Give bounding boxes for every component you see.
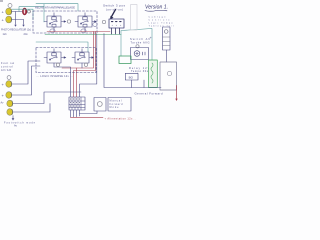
wire green strip to bus — [143, 80, 145, 88]
wire jack2 right — [12, 19, 24, 21]
relay K2 bottom pin — [84, 27, 86, 32]
green strip writing — [151, 63, 153, 83]
pump box U2 — [131, 48, 149, 60]
connector block CN1 — [69, 97, 85, 110]
wire jack3 to logic box — [12, 61, 40, 84]
wire jack6 joins — [13, 104, 50, 113]
ground arrow 1 — [14, 25, 16, 27]
motor box circle — [167, 71, 171, 75]
power wire red drop A — [62, 32, 94, 69]
green label strip (tall) — [149, 60, 158, 88]
svg-text:Cablage: Cablage — [149, 17, 167, 19]
wire red supply legend — [71, 116, 104, 118]
svg-text:Footswitch mode: Footswitch mode — [4, 121, 36, 124]
circled junction label — [67, 20, 70, 23]
wire drop to ground 2 — [23, 20, 25, 25]
title underline — [145, 9, 167, 12]
jack J6 — [7, 109, 13, 116]
svg-text:24v: 24v — [24, 32, 29, 36]
relay module BC box — [125, 73, 138, 80]
wire jack1 to lamp — [12, 11, 22, 13]
circled note under K2 — [81, 29, 86, 33]
svg-text:General Forward: General Forward — [135, 92, 163, 96]
switch S1 legs — [112, 28, 120, 34]
svg-text:Torche AVG: Torche AVG — [131, 40, 150, 44]
wire teal drop to motor block — [120, 35, 122, 57]
jack J2 shadow — [10, 17, 13, 22]
power wire red top — [47, 31, 110, 33]
wire teal riser to box top — [36, 4, 78, 22]
lamp highlight — [24, 9, 25, 14]
circled label left of switch — [102, 20, 105, 23]
relay K1 coil — [52, 17, 56, 20]
relay K1 body — [47, 16, 61, 27]
wire teal mid bus — [36, 42, 88, 52]
wire green bus — [45, 34, 121, 36]
relay K1 output arrow — [62, 21, 65, 23]
jack J1 — [6, 8, 12, 15]
relay K3 contacts — [50, 57, 56, 60]
jack J2 — [6, 16, 12, 23]
relay K3 left pin — [44, 57, 47, 59]
svg-text:(on-off-on): (on-off-on) — [106, 8, 123, 12]
relay K1 top pin — [53, 13, 55, 16]
pump small marks — [143, 52, 146, 55]
relay K4 output arrow — [90, 57, 93, 59]
relay K4 left pin — [72, 57, 75, 59]
connector grid rows — [69, 101, 85, 108]
svg-text:RELAIS ATV ANTIPARALLELAGE: RELAIS ATV ANTIPARALLELAGE — [35, 6, 75, 10]
relay K2 top pin — [84, 13, 86, 16]
manual mode box — [108, 98, 131, 112]
relay K4 top pin — [81, 49, 83, 52]
power wire red branch A down — [76, 68, 78, 97]
wire BC box to bus — [131, 80, 133, 88]
relay K4 coil — [80, 53, 84, 56]
faint spare component outline — [131, 5, 137, 31]
mode indicator box — [94, 98, 106, 112]
relay K1 contacts — [50, 21, 56, 24]
ground arrow 2 — [22, 25, 24, 27]
circled note right of K2 — [93, 23, 97, 27]
wire dark drop to bundle — [80, 34, 97, 98]
relay K2 contacts — [81, 21, 87, 24]
motor box M1 — [160, 62, 177, 90]
wire teal lower pair — [12, 9, 33, 19]
power wire red drop B — [74, 32, 96, 98]
relay K2 left pin — [75, 21, 78, 23]
jack J1 shadow — [10, 9, 13, 14]
svg-text:12v: 12v — [3, 32, 8, 36]
wire K3 bottom to bundle — [54, 63, 71, 97]
relay K4 contacts — [78, 57, 84, 60]
small terminal circle — [27, 10, 30, 13]
circled label under K4 — [84, 63, 87, 66]
svg-text:PHOTO-REGULATEUR (2x): PHOTO-REGULATEUR (2x) — [1, 28, 31, 31]
fuse F1 divisions — [163, 37, 171, 46]
jack J3 — [6, 81, 12, 88]
paper background — [0, 0, 180, 127]
switch S1 body — [109, 19, 124, 28]
svg-text:+ Alimentation 12v...: + Alimentation 12v... — [105, 118, 136, 121]
relay K3 coil — [52, 53, 56, 56]
relay K1 bottom tab — [52, 24, 56, 27]
wire teal upper pair — [19, 7, 44, 12]
relay K2 coil — [83, 17, 87, 20]
switch S1 annotation arrow — [111, 10, 116, 18]
relay K1 bottom pin — [53, 27, 55, 32]
svg-text:... LOGIC INVERSE 12v ...: ... LOGIC INVERSE 12v ... — [37, 74, 73, 78]
circled label above jack3 — [7, 76, 11, 80]
relay K2 bottom tab — [83, 24, 87, 27]
wire teal to battery — [121, 29, 152, 61]
fuse/battery F1 body — [163, 27, 171, 50]
wire K4 bottom to bundle — [81, 63, 83, 68]
fuse F1 cap circle — [164, 30, 168, 34]
wire drop to ground 1 — [15, 12, 17, 25]
green terminal block small — [119, 56, 131, 64]
wire fuse to motor box — [165, 50, 167, 62]
circled label above jack1 — [8, 4, 12, 8]
wire jack5 to connector — [13, 92, 81, 104]
relay K3 top pin — [53, 49, 55, 52]
svg-text:Switch 3 pos: Switch 3 pos — [103, 4, 126, 8]
svg-text:BO: BO — [129, 75, 134, 79]
wire red motor feed — [176, 86, 178, 100]
wire main bottom bus — [104, 34, 161, 88]
relay K3 body — [47, 52, 61, 63]
svg-text:Mode: Mode — [110, 106, 120, 109]
wire jack4 to logic box — [12, 66, 40, 95]
dashed box relay antiparallelage — [33, 11, 97, 33]
dashed box logic inverse — [36, 48, 96, 73]
connector pins below — [71, 110, 80, 117]
circled label under K3 — [56, 63, 59, 66]
relay K3 output arrow — [62, 57, 65, 59]
jack J4 — [6, 92, 12, 99]
mode indicator circle — [97, 102, 102, 107]
connector grid columns — [72, 97, 81, 110]
ground arrow bottom — [12, 116, 14, 119]
connector pin dots — [71, 99, 80, 106]
relay K4 body — [75, 52, 89, 63]
pump circle + — [134, 51, 140, 57]
circled label above pump — [136, 45, 139, 48]
lamp (red ellipse) — [23, 8, 27, 15]
relay K2 output arrow — [93, 21, 95, 23]
svg-text:Tempo 30s: Tempo 30s — [131, 70, 149, 73]
wire pin4 to mode box — [80, 111, 98, 114]
svg-text:AV/AR: AV/AR — [1, 69, 11, 72]
relay K1 left pin — [44, 21, 47, 23]
jack J5 — [7, 100, 13, 107]
switch S1 position dots — [112, 21, 122, 23]
circled note under K1 — [50, 29, 55, 33]
relay K2 body — [78, 16, 92, 27]
svg-text:Version 1.: Version 1. — [145, 5, 168, 11]
